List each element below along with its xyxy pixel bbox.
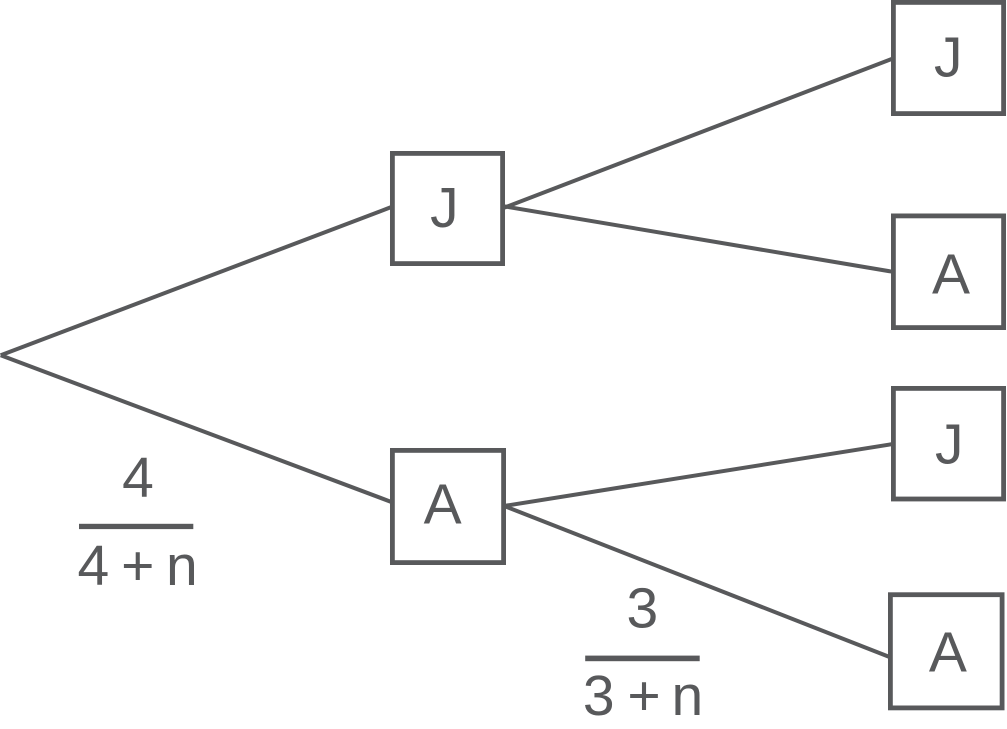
node AA box (890, 595, 1002, 708)
svg-text:3: 3 (583, 664, 615, 728)
wire root to node J (1, 207, 392, 355)
wire node A to node AJ (504, 444, 893, 506)
svg-text:A: A (929, 621, 967, 685)
svg-text:n: n (671, 664, 703, 728)
svg-text:J: J (935, 413, 964, 477)
svg-text:4: 4 (122, 446, 154, 510)
node A box (392, 450, 503, 562)
wire root to node A (1, 355, 392, 502)
svg-text:A: A (932, 243, 970, 307)
node J box (392, 153, 502, 263)
svg-text:J: J (934, 25, 963, 89)
wire node J to node JJ (504, 59, 893, 208)
wire node J to node JA (504, 206, 893, 271)
node AJ box (893, 388, 1003, 499)
svg-text:+: + (627, 664, 660, 728)
svg-text:J: J (430, 176, 459, 240)
probability label 3/(3+n) fraction bar (585, 656, 700, 662)
node JA box (893, 216, 1003, 328)
svg-text:n: n (166, 534, 198, 598)
svg-text:A: A (424, 473, 462, 537)
svg-text:3: 3 (626, 576, 658, 640)
svg-text:+: + (121, 534, 154, 598)
probability label 4/(4+n) fraction bar (79, 524, 193, 529)
svg-text:4: 4 (78, 534, 110, 598)
wire node A to node AA (504, 506, 891, 658)
node JJ box (893, 2, 1003, 113)
